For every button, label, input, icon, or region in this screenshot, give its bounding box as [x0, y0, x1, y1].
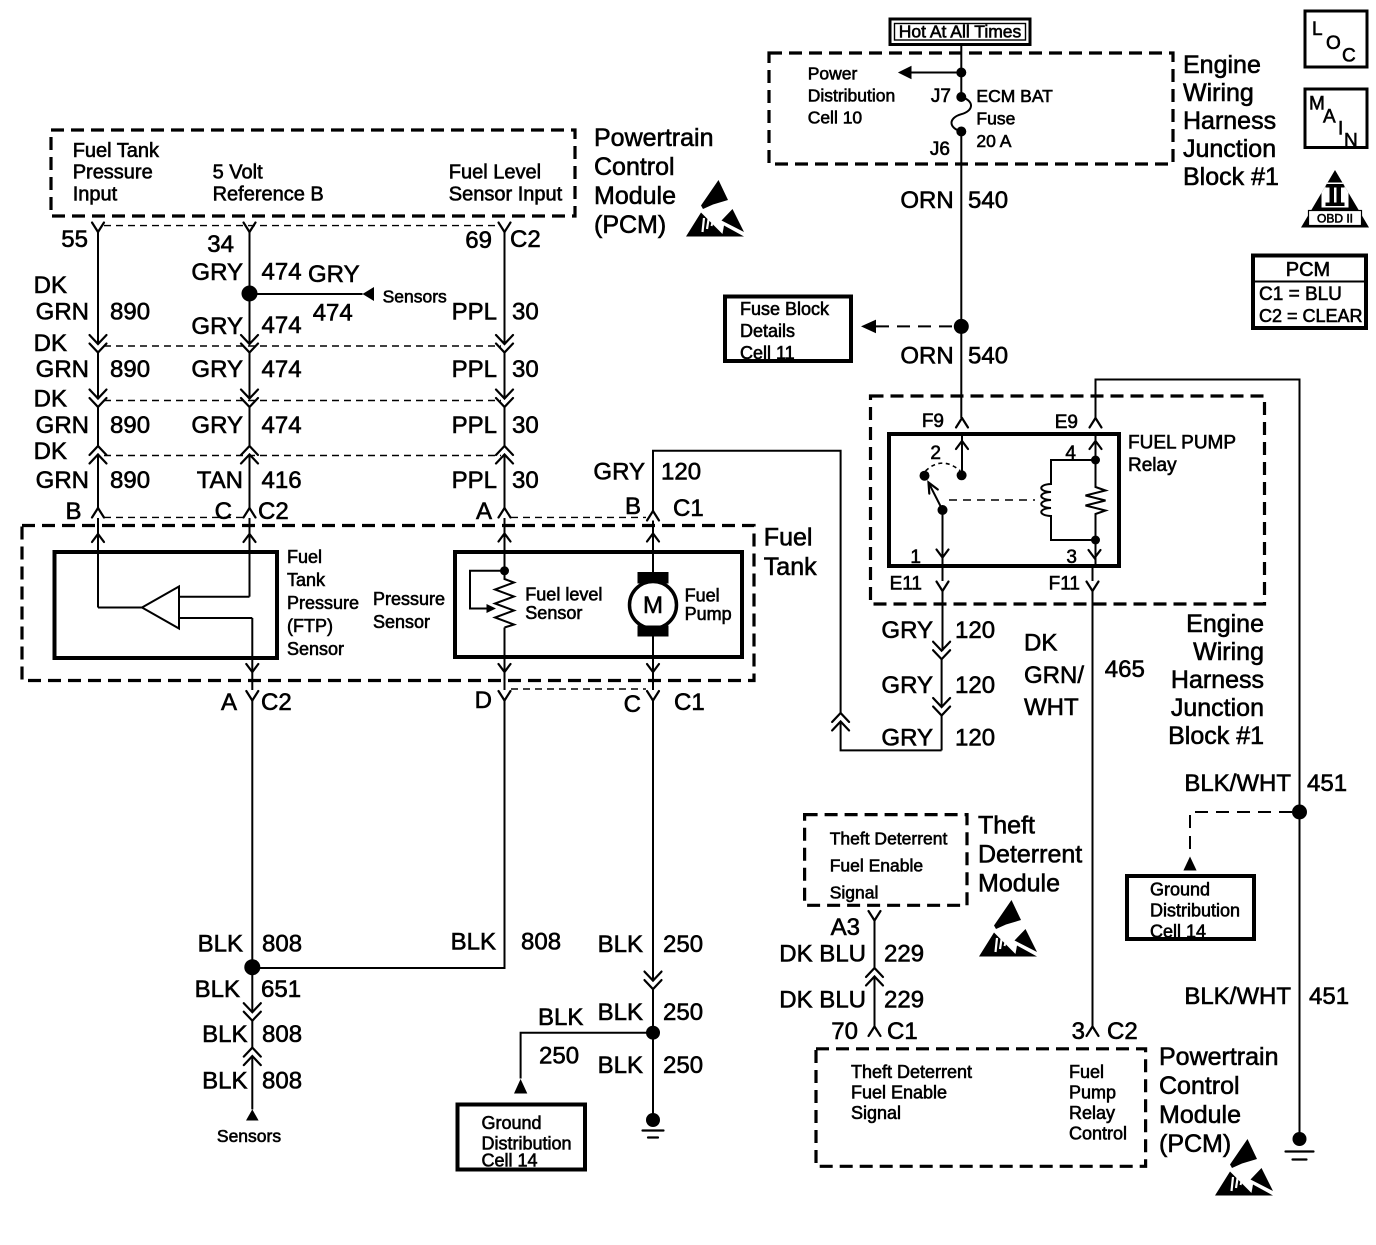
svg-text:TAN: TAN	[197, 467, 243, 494]
svg-text:Deterrent: Deterrent	[978, 841, 1082, 869]
junction node ORN splice to fuse block details	[954, 319, 969, 334]
fuel pump motor feed wire from pin B	[652, 521, 654, 573]
svg-text:Cell 11: Cell 11	[740, 343, 795, 363]
svg-text:Pump: Pump	[685, 604, 732, 624]
svg-text:C2 = CLEAR: C2 = CLEAR	[1259, 306, 1363, 326]
label PPL 30 seg1	[452, 299, 539, 326]
wire DK GRN 890 segment 4	[97, 455, 99, 509]
svg-text:BLK/WHT: BLK/WHT	[1184, 983, 1291, 1010]
svg-text:Input: Input	[73, 183, 118, 205]
dashed reference wire to Fuse Block Details	[876, 325, 954, 327]
fuse ECM BAT 20A terminal J7	[956, 92, 966, 102]
pin label E11	[890, 573, 922, 594]
svg-text:Cell 14: Cell 14	[1150, 922, 1206, 942]
pin label A	[476, 498, 492, 525]
svg-text:C: C	[624, 691, 641, 718]
in-line connector on 890 wire at boundary 3	[90, 446, 107, 464]
pin 69 connector fork	[499, 223, 511, 233]
in-line connector on 890 wire at boundary 2	[90, 390, 107, 408]
label BLK 250 seg1	[598, 931, 703, 958]
svg-text:Reference B: Reference B	[213, 183, 324, 205]
svg-text:C1: C1	[674, 689, 705, 716]
text Power Distribution Cell 10	[808, 64, 896, 128]
relay pin 2 lead	[961, 434, 963, 475]
in-line connector on sensor ground wire 1	[244, 1003, 261, 1021]
module box: Powertrain Control Module (PCM) top, dashed	[51, 130, 575, 216]
relay switch dashed travel arc	[926, 463, 961, 471]
svg-text:E9: E9	[1055, 412, 1078, 433]
svg-text:Distribution: Distribution	[1150, 901, 1240, 921]
wire BLK 808 lower segment	[251, 1056, 253, 1109]
svg-text:Engine: Engine	[1183, 51, 1261, 79]
PCM function label: Fuel Level Sensor Input	[449, 162, 563, 206]
wire PPL 30 segment 2	[504, 353, 506, 399]
svg-text:GRY: GRY	[191, 356, 243, 383]
svg-text:A: A	[476, 498, 492, 525]
pin label 3 at PCM	[1072, 1018, 1085, 1045]
svg-text:Ground: Ground	[1150, 880, 1210, 900]
fuse terminal J6	[956, 127, 966, 137]
svg-text:C1: C1	[673, 495, 704, 522]
label GRY 474 seg1	[191, 259, 301, 287]
svg-text:250: 250	[663, 999, 703, 1026]
svg-text:N: N	[1344, 131, 1358, 152]
junction node to power distribution	[956, 68, 966, 78]
in-line connector on 30 wire at boundary 2	[496, 390, 513, 408]
connector line C2 at PCM (thin dashed)	[104, 225, 497, 227]
svg-text:L: L	[1312, 19, 1323, 40]
ground symbol G103 fuel pump	[643, 1113, 664, 1138]
svg-text:Wiring: Wiring	[1193, 638, 1264, 666]
harness boundary line 2 (thin dashed)	[104, 400, 501, 402]
svg-text:Fuel: Fuel	[1069, 1062, 1104, 1082]
svg-text:GRN: GRN	[36, 412, 89, 439]
svg-text:Theft: Theft	[978, 812, 1035, 840]
relay pin 1 lead	[942, 510, 944, 566]
svg-text:Pressure: Pressure	[287, 593, 359, 613]
component box: Fuel Tank Pressure (FTP) Sensor	[55, 552, 278, 658]
text Ground Distribution Cell 14 left	[482, 1113, 572, 1171]
svg-text:DK BLU: DK BLU	[779, 941, 866, 968]
svg-text:Fuel level: Fuel level	[525, 584, 602, 604]
pin 70 fork at PCM C1	[869, 1027, 881, 1037]
pin B fork fuel tank top (GRY 120)	[647, 511, 659, 521]
svg-text:BLK: BLK	[598, 931, 643, 958]
svg-text:Cell 14: Cell 14	[482, 1151, 538, 1171]
label DK GRN 890 seg1	[34, 272, 150, 326]
in-line connector on 474 wire at boundary 2	[241, 390, 258, 408]
connector line C1 at fuel tank top right (thin dashed)	[511, 516, 646, 518]
svg-text:Fuel: Fuel	[287, 547, 322, 567]
svg-text:PPL: PPL	[452, 299, 497, 326]
svg-text:Block #1: Block #1	[1168, 722, 1264, 750]
svg-text:F9: F9	[922, 411, 944, 432]
module box: Powertrain Control Module (PCM) bottom, dashed	[816, 1049, 1146, 1167]
wire GRY 120 seg2	[941, 659, 943, 707]
pin E11 connector fork	[937, 582, 949, 592]
off-page terminal triangle to ground distribution	[514, 1079, 527, 1094]
svg-text:GRY: GRY	[881, 725, 933, 752]
FTP sensor amplifier triangle	[142, 587, 179, 629]
svg-text:Powertrain: Powertrain	[1159, 1043, 1279, 1071]
pin label E9	[1055, 412, 1078, 433]
connector line at fuel tank bottom (thin dashed)	[511, 688, 646, 690]
pin label B at fuel tank	[625, 493, 641, 520]
off-page terminal triangle to Sensors	[246, 1109, 259, 1120]
svg-text:A3: A3	[831, 914, 860, 941]
legend table PCM connectors	[1253, 256, 1366, 329]
svg-text:5 Volt: 5 Volt	[213, 162, 263, 184]
wire GRY 120 from relay E11 seg1	[942, 591, 944, 651]
svg-text:D: D	[475, 687, 492, 714]
svg-text:Sensor: Sensor	[373, 612, 430, 632]
relay switch arm arrowhead	[929, 483, 938, 494]
arrow up on FTP output wire	[92, 534, 104, 542]
svg-text:GRY: GRY	[881, 672, 933, 699]
svg-text:ORN: ORN	[900, 187, 953, 214]
svg-text:GRY: GRY	[191, 313, 243, 340]
pin label 69	[465, 227, 492, 254]
svg-text:Ground: Ground	[482, 1113, 542, 1133]
in-line connector on 474/416 wire at boundary 3	[241, 446, 258, 464]
wire BLK 250 seg3 to ground	[652, 1033, 654, 1120]
svg-text:I: I	[1338, 119, 1343, 140]
legend table header PCM	[1286, 259, 1330, 281]
label GRY 474 on sensors branch	[308, 261, 360, 327]
svg-text:Block #1: Block #1	[1183, 163, 1279, 191]
pin label 70	[831, 1018, 858, 1045]
label BLK 808 on A wire	[198, 931, 302, 958]
relay pin 3 stub below box	[1092, 566, 1094, 581]
svg-text:Theft Deterrent: Theft Deterrent	[851, 1062, 972, 1082]
label Pressure Sensor	[373, 589, 445, 632]
svg-text:Theft Deterrent: Theft Deterrent	[830, 828, 948, 848]
svg-text:Fuel Level: Fuel Level	[449, 162, 541, 184]
connector label C2 at FTP	[258, 498, 289, 525]
reference box: Ground Distribution Cell 14 (right)	[1127, 876, 1254, 939]
arrow to Power Distribution Cell 10	[898, 66, 912, 80]
svg-text:890: 890	[110, 299, 150, 326]
arrow down on relay pin 1 lead	[937, 550, 949, 558]
svg-text:GRY: GRY	[881, 617, 933, 644]
pin label F11	[1049, 573, 1080, 594]
svg-text:Engine: Engine	[1186, 610, 1264, 638]
label GRY 120 seg2	[881, 672, 995, 699]
off-page terminal triangle to ground distribution right	[1183, 857, 1196, 871]
label DK GRN/WHT 465	[1024, 630, 1145, 721]
svg-text:C2: C2	[1107, 1018, 1138, 1045]
svg-text:474: 474	[262, 312, 302, 339]
svg-text:Hot At All Times: Hot At All Times	[899, 22, 1022, 42]
svg-text:Fuel: Fuel	[764, 524, 813, 552]
svg-text:69: 69	[465, 227, 492, 254]
pin C fork at FTP sensor	[244, 508, 256, 518]
svg-text:PCM: PCM	[1286, 259, 1330, 281]
pin E9 connector fork	[1090, 418, 1102, 428]
legend row C1 = BLU	[1259, 284, 1342, 305]
svg-text:GRN: GRN	[36, 299, 89, 326]
wire GRY 120 riser lower segment	[841, 722, 942, 751]
label Sensors (off-page)	[383, 287, 447, 307]
label GRY 120 seg3	[881, 725, 995, 752]
fuse ECM BAT 20 A element	[952, 97, 972, 132]
wire PPL 30 segment 4	[504, 455, 506, 509]
in-line connector on 30 wire at boundary 1	[496, 335, 513, 353]
svg-text:C: C	[215, 498, 232, 525]
fuel pump ground wire to pin C	[652, 637, 654, 691]
svg-text:C2: C2	[258, 498, 289, 525]
wire BLK 808 from pin A (C2) down	[251, 701, 253, 968]
label DK BLU 229 seg1	[779, 941, 924, 968]
svg-text:DK: DK	[34, 330, 67, 357]
svg-text:1: 1	[910, 547, 921, 568]
harness boundary line 1 (thin dashed)	[104, 345, 501, 347]
svg-text:451: 451	[1309, 983, 1349, 1010]
svg-text:OBD II: OBD II	[1317, 212, 1353, 226]
svg-text:Distribution: Distribution	[808, 86, 896, 106]
svg-text:20 A: 20 A	[976, 131, 1011, 151]
svg-text:Sensors: Sensors	[217, 1126, 281, 1146]
junction node BLK ground splice	[244, 959, 260, 975]
svg-text:808: 808	[521, 928, 561, 955]
wire GRY 474 segment 1 (pin 34 down)	[249, 232, 251, 294]
svg-text:(PCM): (PCM)	[594, 211, 666, 239]
arrow down on relay pin 3 lead	[1089, 550, 1101, 558]
pin A3 connector fork	[869, 911, 881, 921]
wire TAN 416 segment 4	[249, 455, 251, 509]
wire from Hot At All Times into junction block	[960, 45, 962, 98]
ESD sensitivity symbol near bottom PCM	[1215, 1139, 1273, 1196]
svg-text:Sensor: Sensor	[287, 639, 344, 659]
label PPL 30 seg3	[452, 412, 539, 439]
FTP sensor supply wire from pin C	[179, 518, 250, 597]
PCM function label: Theft Deterrent Fuel Enable Signal	[851, 1062, 972, 1123]
arrow down on pump ground wire	[647, 664, 659, 672]
arrow up on relay pin 2 lead	[956, 441, 968, 449]
text Ground Distribution Cell 14 right	[1150, 880, 1240, 942]
relay mechanical link (dashed)	[949, 499, 1035, 501]
relay pin 3 lead	[1095, 540, 1097, 566]
module name text: Engine Wiring Harness Junction Block #1 (right)	[1168, 610, 1264, 750]
label BLK 808 lower	[202, 1068, 302, 1095]
svg-text:250: 250	[663, 931, 703, 958]
svg-text:120: 120	[955, 725, 995, 752]
junction node on 5V reference wire	[242, 286, 258, 302]
wire BLK 808 from pin D down	[252, 701, 504, 969]
svg-text:808: 808	[262, 1068, 302, 1095]
svg-text:120: 120	[955, 672, 995, 699]
relay switch movable arm	[929, 483, 943, 511]
svg-text:(PCM): (PCM)	[1159, 1130, 1231, 1158]
svg-text:Fuel Enable: Fuel Enable	[830, 856, 923, 876]
svg-text:GRY: GRY	[191, 412, 243, 439]
component name: FUEL PUMP Relay	[1128, 433, 1236, 476]
wire GRY 120 from fuel pump relay to fuel tank pin B	[653, 451, 841, 713]
svg-text:BLK: BLK	[538, 1004, 583, 1031]
legend letters MAIN	[1309, 94, 1358, 152]
relay pin label 3	[1066, 547, 1077, 568]
pin F9 connector fork	[956, 418, 968, 428]
label GRY 474 seg3	[191, 412, 301, 439]
pin label 34	[207, 231, 234, 258]
svg-text:34: 34	[207, 231, 234, 258]
svg-text:Wiring: Wiring	[1183, 79, 1254, 107]
svg-text:540: 540	[968, 343, 1008, 370]
fuel level sensor resistor	[495, 571, 514, 628]
svg-text:Relay: Relay	[1069, 1103, 1115, 1123]
svg-text:BLK: BLK	[198, 931, 243, 958]
ground symbol G104 PCM	[1286, 1132, 1314, 1160]
svg-text:GRY: GRY	[593, 459, 645, 486]
svg-text:Power: Power	[808, 64, 858, 84]
pin label 55	[61, 226, 88, 253]
pin 55 connector fork	[92, 223, 104, 233]
fuel level sensor wiper arm	[470, 571, 505, 609]
relay pin 4 lead	[1095, 434, 1097, 460]
connector label C1 bottom	[674, 689, 705, 716]
svg-text:Fuse Block: Fuse Block	[740, 299, 830, 319]
svg-text:PPL: PPL	[452, 356, 497, 383]
arrow up on pump feed wire	[647, 534, 659, 542]
text Theft Deterrent Fuel Enable Signal (module)	[830, 828, 948, 902]
svg-text:30: 30	[512, 356, 539, 383]
svg-text:BLK: BLK	[202, 1021, 247, 1048]
svg-text:Sensor: Sensor	[525, 603, 582, 623]
svg-text:Cell 10: Cell 10	[808, 108, 863, 128]
label TAN 416	[197, 467, 302, 494]
svg-text:890: 890	[110, 467, 150, 494]
pin label C	[215, 498, 232, 525]
label ORN 540 upper	[900, 187, 1008, 214]
svg-text:Fuse: Fuse	[976, 109, 1015, 129]
svg-text:55: 55	[61, 226, 88, 253]
label DK GRN 890 seg3	[34, 386, 150, 440]
svg-text:Fuel Tank: Fuel Tank	[73, 140, 160, 162]
svg-text:J7: J7	[931, 86, 951, 107]
svg-text:M: M	[643, 592, 663, 619]
svg-text:WHT: WHT	[1024, 694, 1079, 721]
svg-text:30: 30	[512, 412, 539, 439]
pin label J6	[930, 139, 950, 160]
relay pin 1 stub below box	[942, 566, 944, 581]
pin B fork at FTP sensor	[92, 508, 104, 518]
svg-text:C2: C2	[510, 226, 541, 253]
svg-text:474: 474	[313, 300, 353, 327]
in-line connector on 474 wire at boundary 1	[241, 335, 258, 353]
svg-text:(FTP): (FTP)	[287, 616, 333, 636]
pin A fork at pressure sensor	[499, 508, 511, 518]
svg-text:Pressure: Pressure	[73, 162, 153, 184]
svg-text:Signal: Signal	[851, 1103, 901, 1123]
in-line connector on GRY 120 wire 1	[933, 642, 950, 660]
svg-text:465: 465	[1105, 656, 1145, 683]
svg-text:GRY: GRY	[308, 261, 360, 288]
svg-text:3: 3	[1066, 547, 1077, 568]
pin A fork fuel tank bottom	[246, 691, 258, 701]
label Sensors bottom	[217, 1126, 281, 1146]
svg-text:ORN: ORN	[900, 343, 953, 370]
OBD II symbol triangle	[1301, 170, 1369, 228]
svg-text:DK: DK	[34, 386, 67, 413]
label GRY 474 seg1b	[191, 312, 301, 340]
svg-text:Module: Module	[594, 182, 676, 210]
svg-text:2: 2	[930, 443, 941, 464]
module name text: Powertrain Control Module (PCM) bottom	[1159, 1043, 1279, 1158]
ESD sensitivity symbol near Theft Deterrent Module	[979, 900, 1037, 957]
relay switch arm pivot node	[938, 505, 948, 515]
FTP sensor output wire to pin B	[98, 518, 142, 608]
branch wire BLK 250 to ground distribution	[521, 1033, 653, 1079]
svg-text:808: 808	[262, 1021, 302, 1048]
arrow up on FTP supply wire	[244, 534, 256, 542]
relay pin label 2	[930, 443, 941, 464]
module box: junction block relay section, dashed	[871, 396, 1265, 604]
in-line connector on sensor ground wire 2	[244, 1048, 261, 1066]
svg-text:890: 890	[110, 356, 150, 383]
ESD sensitivity symbol near PCM	[686, 180, 744, 237]
wire GRY 474 segment 3	[249, 407, 251, 446]
svg-text:B: B	[625, 493, 641, 520]
svg-text:GRN/: GRN/	[1024, 662, 1084, 689]
wire GRY 474 below junction	[249, 294, 251, 345]
svg-text:70: 70	[831, 1018, 858, 1045]
svg-text:Tank: Tank	[287, 570, 326, 590]
svg-text:Control: Control	[1159, 1072, 1240, 1100]
legend row C2 = CLEAR	[1259, 306, 1363, 326]
svg-text:474: 474	[262, 259, 302, 286]
in-line connector on 890 wire at boundary 1	[90, 335, 107, 353]
wire DK GRN 890 segment 3	[97, 407, 99, 446]
label GRY 120 seg1	[881, 617, 995, 644]
pin 34 connector fork	[244, 223, 256, 233]
svg-text:474: 474	[262, 412, 302, 439]
svg-text:Details: Details	[740, 321, 795, 341]
power feed box: Hot At All Times	[890, 19, 1030, 45]
node on fuel level sensor	[500, 566, 509, 575]
label PPL 30 seg4	[452, 467, 539, 494]
svg-text:GRN: GRN	[36, 467, 89, 494]
svg-text:J6: J6	[930, 139, 950, 160]
svg-text:E11: E11	[890, 573, 922, 594]
component box: Pressure Sensor (fuel level sender and pump)	[455, 552, 742, 657]
label Fuel Pump	[685, 586, 732, 625]
wire BLK 250 seg2	[652, 989, 654, 1033]
svg-text:Harness: Harness	[1183, 107, 1276, 135]
pin 3 fork at PCM C2	[1087, 1027, 1099, 1037]
svg-text:DK: DK	[34, 438, 67, 465]
wire BLK 808 mid segment	[251, 1021, 253, 1048]
pin D fork fuel tank bottom	[499, 691, 511, 701]
PCM function label: Fuel Tank Pressure Input	[73, 140, 160, 206]
connector label C1 at PCM	[887, 1018, 918, 1045]
arrow up on fuel level feed wire	[499, 534, 511, 542]
svg-text:C1: C1	[887, 1018, 918, 1045]
off-page arrow to Sensors	[363, 287, 375, 301]
pin F11 connector fork	[1087, 582, 1099, 592]
in-line connector on 30 wire at boundary 3	[496, 446, 513, 464]
label BLK 808 on D wire	[451, 928, 561, 955]
svg-text:B: B	[65, 498, 81, 525]
wire DK GRN/WHT 465 from relay F11 to PCM	[1092, 591, 1094, 1027]
svg-text:DK BLU: DK BLU	[779, 987, 866, 1014]
svg-text:120: 120	[955, 617, 995, 644]
svg-text:Tank: Tank	[764, 553, 817, 581]
svg-text:BLK/WHT: BLK/WHT	[1184, 770, 1291, 797]
svg-text:Module: Module	[1159, 1101, 1241, 1129]
svg-text:Fuel Enable: Fuel Enable	[851, 1083, 947, 1103]
branch wire GRY 474 to Sensors	[250, 293, 363, 295]
label BLK/WHT 451 upper	[1184, 770, 1347, 797]
